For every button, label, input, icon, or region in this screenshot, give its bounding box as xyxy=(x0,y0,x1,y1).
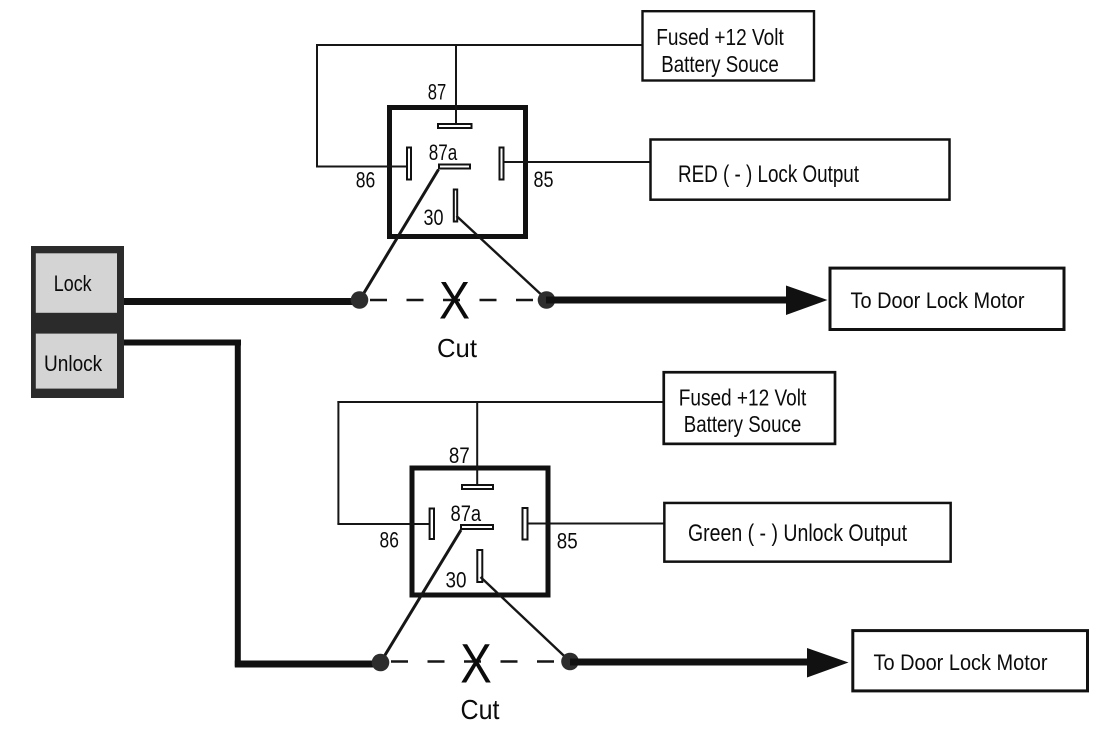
wire: horizontal into pin 86 (relay K2) xyxy=(337,523,429,525)
junction dot: unlock line right xyxy=(561,653,579,671)
box: Green ( - ) Unlock Output xyxy=(664,503,950,562)
pin 86 terminal bar K1 xyxy=(407,148,411,180)
svg-text:87: 87 xyxy=(428,80,447,105)
box: Fused +12 Volt Battery Souce (top) xyxy=(643,11,815,80)
svg-text:30: 30 xyxy=(424,205,444,230)
pin 85 terminal bar K1 xyxy=(500,148,504,180)
svg-text:Unlock: Unlock xyxy=(44,351,103,376)
wire: battery feed top horizontal (relay K1 to battery box) xyxy=(316,44,642,46)
wire: pin 85 to Green output box (relay K2) xyxy=(528,523,665,525)
box: To Door Lock Motor (top) xyxy=(830,268,1064,329)
pin 30 terminal bar K1 xyxy=(454,190,457,222)
svg-text:Fused +12 Volt: Fused +12 Volt xyxy=(679,384,807,410)
junction dot: lock line left xyxy=(351,291,369,309)
wire: diagonal pin 87a to bottom-left junction (relay K2) xyxy=(381,530,462,663)
svg-text:30: 30 xyxy=(446,568,467,593)
wire: thick unlock wire bottom horizontal to junction xyxy=(235,661,377,668)
switch: Lock button pad xyxy=(36,253,117,312)
wire: diagonal pin 30 to right junction (relay K1) xyxy=(457,216,547,300)
wire: thick lock wire junction to arrow xyxy=(546,297,786,304)
pin 30 terminal bar K2 xyxy=(477,550,482,582)
wire: dashed cut section (unlock line) xyxy=(391,660,563,663)
wire: thick unlock wire horizontal from switch xyxy=(124,340,241,346)
svg-text:RED ( - ) Lock Output: RED ( - ) Lock Output xyxy=(678,161,859,188)
svg-text:Cut: Cut xyxy=(437,333,478,363)
wire: battery feed horizontal (relay K2 to battery box) xyxy=(337,401,663,403)
relay K2 body xyxy=(412,468,548,595)
wire: diagonal pin 87a to left junction (relay K1) xyxy=(360,170,439,300)
wire: thick lock wire from switch to left junction xyxy=(124,298,356,305)
box: RED ( - ) Lock Output xyxy=(651,140,950,200)
svg-text:X: X xyxy=(460,631,492,694)
junction dot: lock line right xyxy=(538,291,556,309)
box: To Door Lock Motor (bottom) xyxy=(853,631,1088,691)
svg-text:87a: 87a xyxy=(429,140,458,165)
switch: lock/unlock rocker housing xyxy=(31,246,124,398)
wire: diagonal pin 30 to bottom-right junction (relay K2) xyxy=(481,577,571,662)
wire: dashed cut section (lock line) xyxy=(370,299,542,302)
pin 87 terminal bar K1 xyxy=(438,124,472,128)
pin 87a terminal bar K1 xyxy=(439,165,470,169)
svg-text:X: X xyxy=(439,271,470,330)
pin 87a terminal bar K2 xyxy=(461,525,493,529)
svg-text:87a: 87a xyxy=(451,501,482,526)
svg-text:Fused +12 Volt: Fused +12 Volt xyxy=(656,24,784,50)
wire: thick unlock wire junction to arrow xyxy=(570,659,807,666)
arrowhead: to door lock motor (top) xyxy=(786,286,828,316)
arrowhead: to door lock motor (bottom) xyxy=(807,648,849,678)
svg-text:To Door Lock Motor: To Door Lock Motor xyxy=(851,288,1025,313)
svg-text:Green ( - ) Unlock Output: Green ( - ) Unlock Output xyxy=(688,520,907,547)
pin 87 terminal bar K2 xyxy=(462,485,493,489)
wire: pin 87 riser (relay K1) xyxy=(455,44,457,124)
svg-text:Cut: Cut xyxy=(461,694,500,725)
wire: thick unlock wire vertical drop xyxy=(235,340,241,667)
svg-text:86: 86 xyxy=(380,528,399,553)
switch: Unlock button pad xyxy=(36,334,117,389)
svg-text:85: 85 xyxy=(557,529,578,554)
svg-text:87: 87 xyxy=(449,443,470,468)
junction dot: unlock line left xyxy=(372,654,390,672)
svg-text:Lock: Lock xyxy=(54,271,93,296)
svg-text:To Door Lock Motor: To Door Lock Motor xyxy=(874,650,1048,675)
svg-text:85: 85 xyxy=(534,167,554,192)
wire: pin 87 riser (relay K2) xyxy=(476,401,478,485)
relay K1 body xyxy=(390,108,526,237)
pin 86 terminal bar K2 xyxy=(430,509,434,540)
pin 85 terminal bar K2 xyxy=(523,508,528,540)
box: Fused +12 Volt Battery Souce (bottom) xyxy=(664,372,835,444)
wire: battery feed left vertical drop (relay K2) xyxy=(337,401,339,524)
wire: pin 85 to RED output box (relay K1) xyxy=(504,161,651,163)
wire: horizontal into pin 86 (relay K1) xyxy=(316,166,407,168)
svg-text:Battery Souce: Battery Souce xyxy=(684,411,802,437)
wire: battery feed left vertical drop (relay K1) xyxy=(316,44,318,167)
svg-text:86: 86 xyxy=(356,168,376,193)
svg-text:Battery Souce: Battery Souce xyxy=(661,51,779,77)
